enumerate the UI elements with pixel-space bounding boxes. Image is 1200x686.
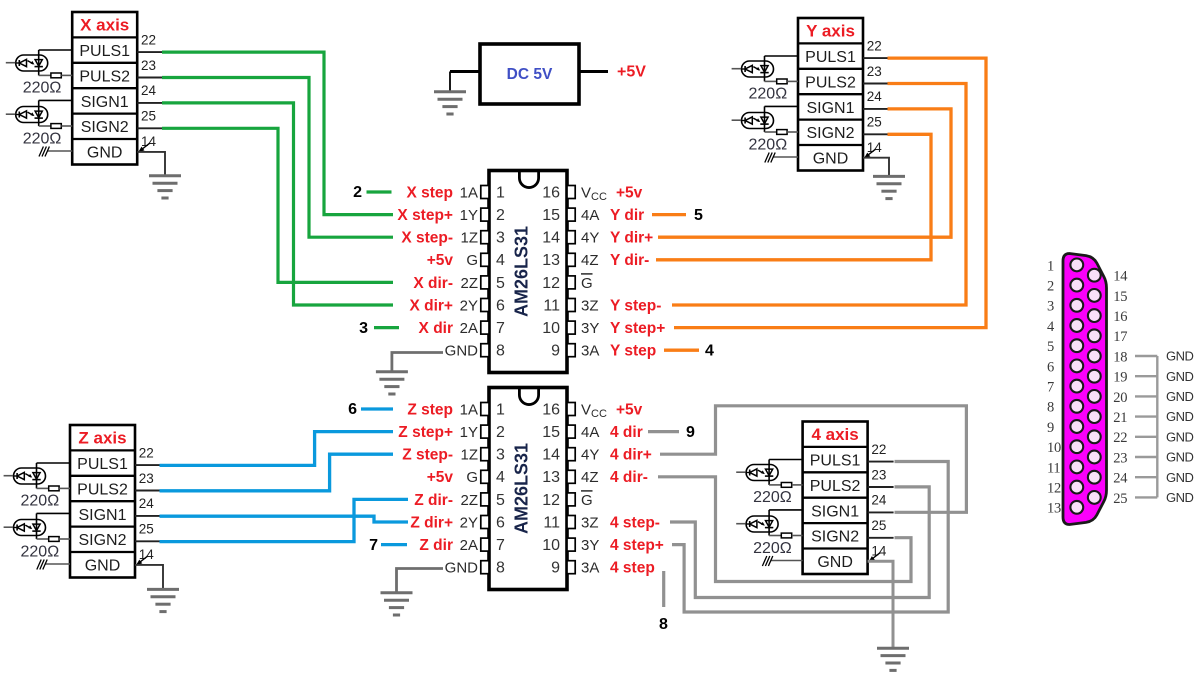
svg-text:4 step-: 4 step- [610, 514, 660, 531]
svg-text:PULS1: PULS1 [79, 43, 130, 60]
svg-text:2Y: 2Y [460, 514, 478, 531]
svg-text:SIGN1: SIGN1 [81, 94, 129, 111]
svg-text:12: 12 [1047, 481, 1061, 497]
svg-text:Y axis: Y axis [806, 22, 855, 41]
svg-text:SIGN2: SIGN2 [81, 119, 129, 136]
svg-text:2Z: 2Z [460, 492, 478, 509]
svg-text:3Y: 3Y [581, 537, 599, 554]
svg-text:11: 11 [1047, 460, 1060, 476]
svg-text:PULS2: PULS2 [810, 478, 861, 495]
svg-text:14: 14 [542, 230, 560, 247]
svg-text:24: 24 [139, 496, 155, 511]
svg-text:24: 24 [871, 493, 887, 508]
svg-text:4 dir: 4 dir [610, 424, 643, 441]
svg-text:18: 18 [1113, 349, 1127, 365]
svg-text:PULS1: PULS1 [810, 453, 861, 470]
svg-text:GND: GND [813, 151, 849, 168]
svg-text:GND: GND [1166, 389, 1194, 404]
svg-text:1Y: 1Y [460, 424, 478, 441]
svg-text:2A: 2A [460, 537, 478, 554]
svg-text:3: 3 [1047, 299, 1054, 315]
svg-text:X dir+: X dir+ [409, 297, 453, 314]
svg-text:PULS2: PULS2 [77, 481, 128, 498]
svg-text:1A: 1A [460, 184, 478, 201]
svg-text:11: 11 [543, 297, 560, 314]
svg-text:11: 11 [543, 514, 560, 531]
svg-text:9: 9 [686, 424, 695, 441]
svg-text:4A: 4A [581, 207, 599, 224]
svg-text:GND: GND [445, 560, 479, 577]
svg-text:3: 3 [359, 320, 368, 337]
svg-text:2: 2 [496, 424, 505, 441]
svg-text:8: 8 [1047, 400, 1054, 416]
svg-text:Z step-: Z step- [402, 447, 453, 464]
svg-text:5: 5 [694, 207, 703, 224]
svg-text:+5v: +5v [427, 469, 454, 486]
svg-text:23: 23 [141, 58, 156, 73]
svg-text:PULS2: PULS2 [79, 68, 130, 85]
svg-text:3A: 3A [581, 560, 599, 577]
svg-text:4 axis: 4 axis [811, 425, 858, 444]
svg-text:10: 10 [542, 537, 560, 554]
svg-text:Y step: Y step [610, 343, 656, 360]
svg-text:G: G [466, 469, 478, 486]
svg-text:X dir: X dir [419, 320, 453, 337]
svg-text:9: 9 [1047, 420, 1054, 436]
svg-text:25: 25 [871, 518, 886, 533]
svg-text:2Z: 2Z [460, 275, 478, 292]
svg-text:4 step: 4 step [610, 560, 655, 577]
svg-text:4 step+: 4 step+ [610, 537, 664, 554]
svg-text:12: 12 [542, 275, 560, 292]
svg-text:GND: GND [87, 145, 123, 162]
svg-text:Z dir-: Z dir- [414, 492, 453, 509]
svg-text:GND: GND [1166, 369, 1194, 384]
svg-text:220Ω: 220Ω [753, 540, 792, 557]
svg-text:SIGN2: SIGN2 [78, 532, 126, 549]
svg-text:Y step-: Y step- [610, 297, 661, 314]
svg-text:+5v: +5v [616, 184, 643, 201]
svg-text:12: 12 [542, 492, 560, 509]
svg-text:13: 13 [1047, 501, 1061, 517]
svg-text:SIGN1: SIGN1 [806, 100, 854, 117]
svg-text:22: 22 [1113, 430, 1127, 446]
svg-text:4 dir-: 4 dir- [610, 469, 648, 486]
svg-text:2Y: 2Y [460, 297, 478, 314]
svg-text:20: 20 [1113, 390, 1127, 406]
svg-text:DC 5V: DC 5V [507, 66, 553, 83]
svg-text:22: 22 [871, 442, 886, 457]
svg-text:GND: GND [445, 343, 479, 360]
svg-text:G: G [581, 492, 593, 509]
svg-text:Z dir: Z dir [419, 537, 453, 554]
svg-text:4: 4 [705, 342, 714, 359]
svg-text:3Z: 3Z [581, 514, 599, 531]
svg-text:4: 4 [496, 252, 505, 269]
svg-text:24: 24 [867, 89, 883, 104]
svg-text:Z step: Z step [407, 401, 453, 418]
svg-text:25: 25 [1113, 491, 1127, 507]
svg-text:220Ω: 220Ω [23, 131, 62, 148]
svg-text:14: 14 [867, 140, 883, 155]
svg-text:Y dir+: Y dir+ [610, 230, 653, 247]
svg-text:GND: GND [1166, 490, 1194, 505]
svg-text:1: 1 [496, 401, 505, 418]
svg-text:3: 3 [496, 447, 505, 464]
svg-text:SIGN1: SIGN1 [78, 507, 126, 524]
svg-text:1: 1 [496, 184, 505, 201]
svg-text:3: 3 [496, 230, 505, 247]
svg-text:7: 7 [369, 537, 378, 554]
svg-text:10: 10 [542, 320, 560, 337]
svg-text:3A: 3A [581, 343, 599, 360]
svg-text:22: 22 [867, 38, 882, 53]
svg-text:PULS2: PULS2 [805, 74, 856, 91]
svg-text:25: 25 [867, 115, 882, 130]
svg-text:4 dir+: 4 dir+ [610, 447, 652, 464]
svg-text:24: 24 [141, 83, 157, 98]
svg-text:16: 16 [1113, 309, 1127, 325]
svg-text:G: G [466, 252, 478, 269]
svg-text:1Y: 1Y [460, 207, 478, 224]
svg-text:2: 2 [353, 184, 362, 201]
svg-text:GND: GND [85, 558, 121, 575]
svg-text:3Y: 3Y [581, 320, 599, 337]
svg-text:220Ω: 220Ω [753, 489, 792, 506]
svg-text:15: 15 [542, 424, 560, 441]
svg-text:220Ω: 220Ω [749, 86, 788, 103]
svg-text:GND: GND [1166, 409, 1194, 424]
svg-text:GND: GND [1166, 450, 1194, 465]
svg-text:4Y: 4Y [581, 447, 599, 464]
svg-text:+5v: +5v [427, 252, 454, 269]
svg-text:14: 14 [141, 134, 157, 149]
svg-text:X axis: X axis [80, 16, 129, 35]
svg-text:220Ω: 220Ω [21, 493, 60, 510]
svg-text:13: 13 [542, 469, 560, 486]
svg-text:24: 24 [1113, 471, 1128, 487]
svg-text:7: 7 [496, 537, 505, 554]
svg-text:14: 14 [871, 544, 887, 559]
svg-text:220Ω: 220Ω [23, 80, 62, 97]
svg-text:16: 16 [542, 401, 560, 418]
svg-text:4: 4 [1047, 319, 1055, 335]
svg-text:X dir-: X dir- [413, 275, 453, 292]
svg-text:23: 23 [867, 64, 882, 79]
svg-text:4Z: 4Z [581, 469, 599, 486]
svg-text:Z dir+: Z dir+ [410, 514, 453, 531]
svg-text:AM26LS31: AM26LS31 [512, 443, 532, 534]
svg-text:6: 6 [1047, 359, 1054, 375]
svg-text:14: 14 [139, 547, 155, 562]
svg-text:Z axis: Z axis [78, 429, 126, 448]
svg-text:G: G [581, 275, 593, 292]
svg-text:1Z: 1Z [460, 230, 478, 247]
svg-text:15: 15 [1113, 289, 1127, 305]
svg-text:1A: 1A [460, 401, 478, 418]
svg-text:+5V: +5V [617, 64, 646, 81]
svg-text:4: 4 [496, 469, 505, 486]
svg-text:23: 23 [871, 467, 886, 482]
svg-text:Y dir: Y dir [610, 207, 644, 224]
svg-text:+5v: +5v [616, 401, 643, 418]
svg-text:23: 23 [139, 471, 154, 486]
svg-text:1: 1 [1047, 258, 1054, 274]
svg-text:8: 8 [659, 616, 668, 633]
svg-text:5: 5 [496, 492, 505, 509]
svg-text:22: 22 [139, 445, 154, 460]
svg-text:25: 25 [139, 522, 154, 537]
svg-text:25: 25 [141, 109, 156, 124]
svg-text:GND: GND [817, 554, 853, 571]
svg-text:5: 5 [496, 275, 505, 292]
svg-text:16: 16 [542, 184, 560, 201]
svg-text:Y dir-: Y dir- [610, 252, 649, 269]
svg-text:6: 6 [348, 401, 357, 418]
svg-text:7: 7 [496, 320, 505, 337]
svg-text:X step+: X step+ [397, 207, 453, 224]
svg-text:GND: GND [1166, 349, 1194, 364]
svg-text:6: 6 [496, 297, 505, 314]
svg-text:220Ω: 220Ω [21, 544, 60, 561]
svg-text:14: 14 [542, 447, 560, 464]
svg-text:7: 7 [1047, 380, 1054, 396]
svg-text:10: 10 [1047, 440, 1061, 456]
svg-text:Z step+: Z step+ [398, 424, 453, 441]
svg-text:22: 22 [141, 32, 156, 47]
svg-text:SIGN2: SIGN2 [811, 529, 859, 546]
svg-text:15: 15 [542, 207, 560, 224]
svg-text:220Ω: 220Ω [749, 137, 788, 154]
svg-text:1Z: 1Z [460, 447, 478, 464]
svg-text:GND: GND [1166, 470, 1194, 485]
svg-text:19: 19 [1113, 370, 1127, 386]
svg-text:2: 2 [1047, 279, 1054, 295]
svg-text:2A: 2A [460, 320, 478, 337]
svg-text:8: 8 [496, 343, 505, 360]
svg-text:PULS1: PULS1 [805, 49, 856, 66]
svg-text:9: 9 [551, 343, 560, 360]
svg-text:3Z: 3Z [581, 297, 599, 314]
svg-text:17: 17 [1113, 329, 1127, 345]
svg-text:SIGN2: SIGN2 [806, 125, 854, 142]
svg-text:5: 5 [1047, 339, 1054, 355]
svg-text:X step: X step [406, 184, 453, 201]
svg-text:14: 14 [1113, 269, 1128, 285]
svg-text:2: 2 [496, 207, 505, 224]
svg-text:AM26LS31: AM26LS31 [512, 226, 532, 317]
svg-text:GND: GND [1166, 429, 1194, 444]
svg-text:PULS1: PULS1 [77, 456, 128, 473]
svg-text:Y step+: Y step+ [610, 320, 665, 337]
svg-text:SIGN1: SIGN1 [811, 503, 859, 520]
svg-text:9: 9 [551, 560, 560, 577]
svg-text:4Y: 4Y [581, 230, 599, 247]
svg-text:4Z: 4Z [581, 252, 599, 269]
svg-text:6: 6 [496, 514, 505, 531]
svg-text:13: 13 [542, 252, 560, 269]
svg-text:23: 23 [1113, 450, 1127, 466]
svg-text:4A: 4A [581, 424, 599, 441]
svg-text:21: 21 [1113, 410, 1127, 426]
svg-text:X step-: X step- [401, 230, 453, 247]
svg-text:8: 8 [496, 560, 505, 577]
